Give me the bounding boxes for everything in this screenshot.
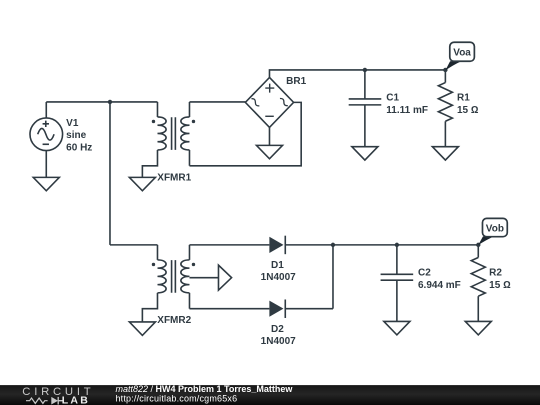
ground BR1 [256,145,282,158]
svg-text:11.11 mF: 11.11 mF [386,105,428,116]
svg-text:V1: V1 [66,118,79,129]
labels D2 [261,324,296,347]
wire [110,244,157,246]
wire [46,101,110,103]
wire [110,101,157,103]
wire [189,101,245,103]
svg-text:60 Hz: 60 Hz [66,142,92,153]
node [395,243,399,247]
footer bar [0,385,540,405]
svg-text:1N4007: 1N4007 [261,272,296,283]
diode D2 [269,299,285,318]
ground R1 [432,147,458,160]
svg-text:Voa: Voa [453,47,471,58]
net flag Vob [478,218,507,245]
wire [332,245,334,309]
wire [285,308,333,310]
svg-text:6.944 mF: 6.944 mF [418,280,461,291]
node [331,243,335,247]
ground center tap rotated [218,265,231,290]
labels R2 [489,267,511,291]
node [476,243,480,247]
ground R2 [465,321,491,334]
wire [333,244,478,246]
node [363,68,367,72]
resistor R1 [438,70,452,147]
svg-text:R2: R2 [489,267,502,278]
svg-text:15 Ω: 15 Ω [489,280,511,291]
V1 labels [66,118,92,153]
svg-text:D1: D1 [271,260,284,271]
resistor R2 [471,245,485,322]
svg-text:http://circuitlab.com/cgm65x6: http://circuitlab.com/cgm65x6 [116,393,238,403]
svg-text:LAB: LAB [62,395,90,405]
svg-text:C2: C2 [418,267,431,278]
wire [189,244,269,246]
svg-text:15 Ω: 15 Ω [457,105,479,116]
svg-text:D2: D2 [271,324,284,335]
capacitor C1 [349,70,382,147]
wire [268,127,270,145]
diode D1 [269,236,285,255]
capacitor C2 [381,245,414,322]
svg-text:sine: sine [66,130,86,141]
svg-text:C1: C1 [386,92,399,103]
ground XFMR2 [129,322,155,335]
transformer XFMR1 [142,102,195,177]
wire [285,244,333,246]
labels R1 [457,92,479,115]
net flag Voa [445,42,474,70]
svg-text:XFMR2: XFMR2 [157,315,191,326]
wire [109,102,111,245]
labels D1 [261,260,296,283]
voltage source V1 [30,102,63,177]
svg-text:XFMR1: XFMR1 [157,172,191,183]
labels C2 [418,267,461,291]
node junction [108,100,112,104]
ground C2 [384,321,410,334]
svg-text:BR1: BR1 [286,76,306,87]
footer credits [116,384,294,403]
transformer XFMR2 [142,245,218,322]
svg-text:R1: R1 [457,92,470,103]
ground V1 [33,177,59,190]
svg-text:1N4007: 1N4007 [261,336,296,347]
labels C1 [386,92,428,115]
wire [269,70,445,78]
node [443,68,447,72]
wire [189,102,301,165]
ground XFMR1 [129,177,155,190]
wire [189,308,269,310]
svg-text:Vob: Vob [486,223,504,234]
bridge rectifier BR1 [245,77,293,127]
logo CIRCUIT LAB [22,386,94,405]
ground C1 [352,147,378,160]
